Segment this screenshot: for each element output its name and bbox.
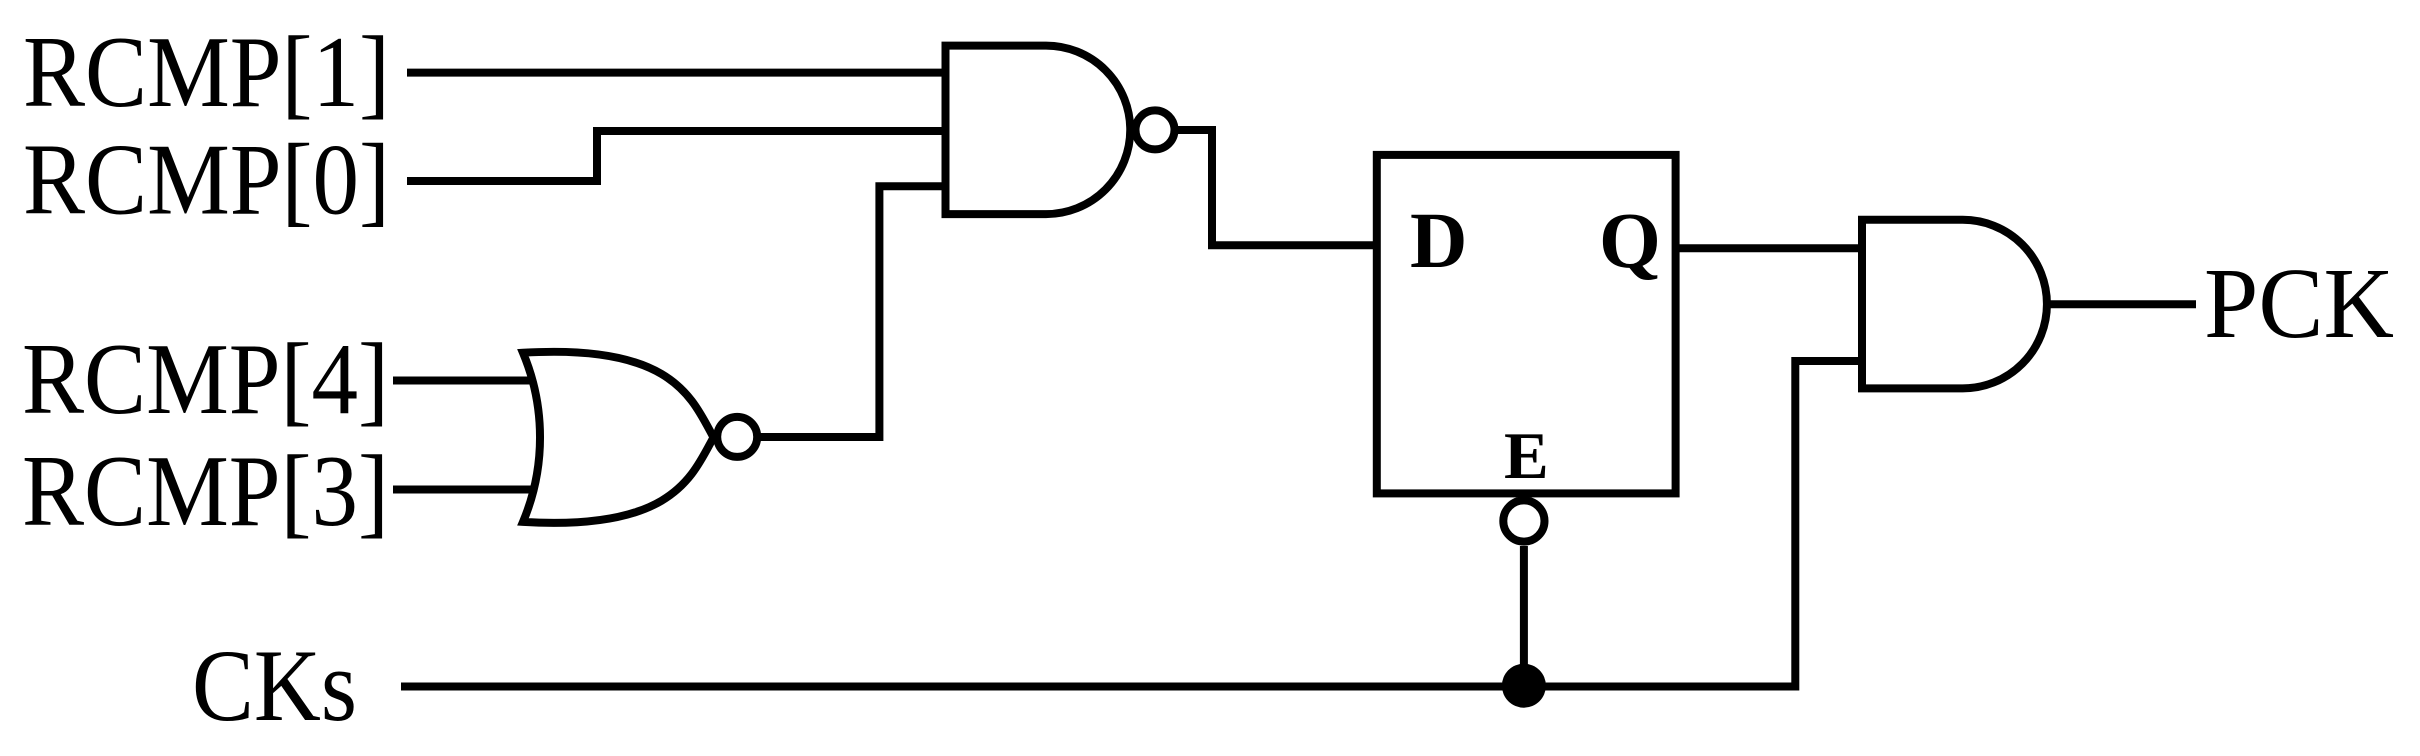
svg-text:D: D xyxy=(1410,197,1467,285)
svg-text:Q: Q xyxy=(1599,197,1661,285)
svg-text:RCMP[1]: RCMP[1] xyxy=(23,16,390,129)
wire NOR output to NAND input 3 xyxy=(759,186,949,437)
svg-text:PCK: PCK xyxy=(2204,247,2394,359)
wire RCMP[0] to NAND input 2 xyxy=(407,131,949,181)
wire RCMP[4] to NOR input 1 xyxy=(393,377,540,385)
nand gate U1 body xyxy=(946,46,1131,215)
svg-text:RCMP[4]: RCMP[4] xyxy=(22,323,389,436)
wire Q output to AND input 1 xyxy=(1676,244,1866,252)
and gate U4 body xyxy=(1862,220,2047,389)
wire CKs bus and riser to AND input 2 xyxy=(401,361,1866,687)
nand gate U1 bubble xyxy=(1136,110,1175,149)
wire RCMP[3] to NOR input 2 xyxy=(393,486,540,494)
d-latch U3 enable bubble xyxy=(1503,500,1544,541)
wire NAND output to D input xyxy=(1178,130,1377,245)
svg-text:CKs: CKs xyxy=(192,629,357,743)
nor gate U2 bubble xyxy=(717,417,757,457)
svg-text:RCMP[3]: RCMP[3] xyxy=(22,435,389,548)
wire AND output to PCK xyxy=(2047,300,2196,308)
wire E bubble to CKs junction xyxy=(1520,546,1528,687)
junction CKs node xyxy=(1502,664,1546,708)
svg-text:E: E xyxy=(1504,419,1549,493)
d-latch U3 box xyxy=(1377,155,1676,494)
svg-text:RCMP[0]: RCMP[0] xyxy=(23,124,390,237)
nor gate U2 body xyxy=(523,352,714,523)
wire RCMP[1] to NAND input 1 xyxy=(407,69,949,77)
